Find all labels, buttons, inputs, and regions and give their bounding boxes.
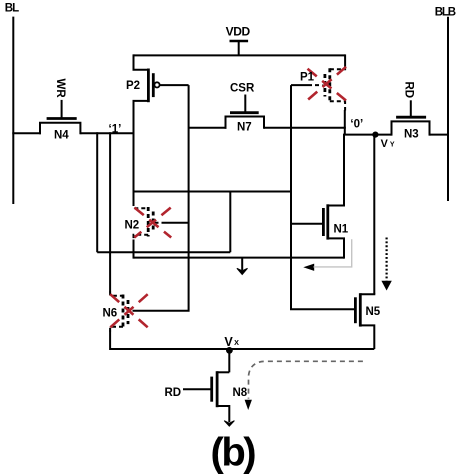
svg-text:N2: N2: [125, 220, 140, 232]
svg-text:BL: BL: [5, 2, 19, 14]
svg-text:V: V: [224, 335, 233, 349]
svg-text:RD: RD: [402, 82, 414, 99]
svg-text:WR: WR: [54, 79, 66, 99]
svg-text:BLB: BLB: [435, 6, 456, 18]
svg-text:X: X: [234, 338, 239, 347]
svg-text:P1: P1: [300, 72, 315, 84]
svg-text:N3: N3: [404, 129, 419, 141]
svg-text:VDD: VDD: [226, 25, 251, 39]
svg-text:N8: N8: [233, 387, 248, 399]
svg-text:N4: N4: [54, 130, 69, 142]
svg-text:CSR: CSR: [230, 83, 255, 95]
svg-text:N5: N5: [366, 306, 381, 318]
svg-text:N1: N1: [334, 224, 349, 236]
svg-text:‘0’: ‘0’: [350, 118, 363, 130]
svg-text:(b): (b): [211, 431, 256, 474]
svg-text:Y: Y: [390, 142, 395, 149]
svg-text:P2: P2: [126, 80, 140, 92]
svg-text:RD: RD: [165, 387, 182, 399]
svg-text:V: V: [381, 138, 389, 150]
svg-text:N7: N7: [237, 122, 252, 134]
svg-text:N6: N6: [103, 308, 118, 320]
svg-text:‘1’: ‘1’: [109, 124, 122, 136]
